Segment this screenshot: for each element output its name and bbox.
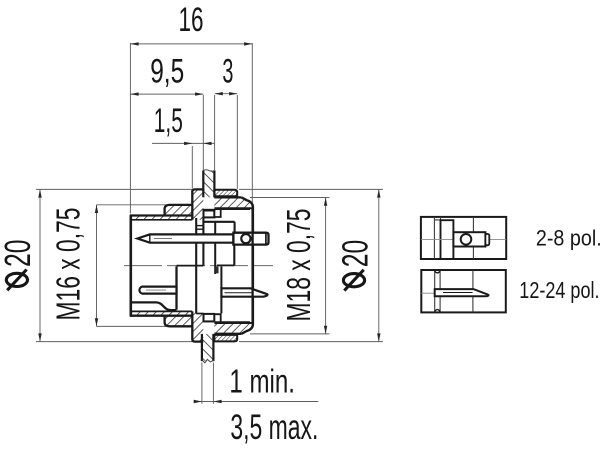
- tube wall outer top: [130, 214, 192, 216]
- break line vertical: [472, 270, 474, 289]
- svg-text:9,5: 9,5: [150, 52, 184, 90]
- solder cup box1: [485, 234, 489, 245]
- arrow M18 top: [324, 198, 327, 206]
- arrow M18 bottom: [324, 326, 327, 334]
- lower pin center dash: [146, 289, 166, 291]
- lug cup line: [265, 233, 267, 244]
- arrow dia20R top: [377, 189, 380, 197]
- dim line 1 min: [198, 401, 319, 403]
- flange outline bottom: [192, 311, 203, 341]
- tube wall inner bottom: [130, 310, 192, 312]
- M18 neck hatch bottom: [214, 323, 250, 334]
- extension line y=189.4 left: [36, 188, 192, 190]
- lower sleeve outline: [131, 302, 177, 310]
- lower pin: [139, 287, 176, 294]
- arrow 1,5 right: [203, 142, 211, 145]
- svg-text:3: 3: [222, 52, 233, 90]
- svg-text:20: 20: [0, 239, 38, 267]
- hatch field front shell lower: [131, 311, 204, 341]
- view box 2-8 pol: [421, 217, 506, 259]
- arrow 16 right: [244, 42, 252, 45]
- extension line x=237.3: [236, 95, 238, 189]
- upper pin: [137, 234, 233, 242]
- rear block right edge upper: [234, 222, 236, 233]
- contact bar box1: [453, 232, 485, 246]
- lower contact blade: [221, 288, 267, 296]
- hole box1: [461, 234, 472, 245]
- centerline box1: [421, 238, 457, 240]
- arrow dia20L bottom: [38, 333, 41, 341]
- arrow 9,5 left: [130, 92, 138, 95]
- arrow 1,5 left: [184, 142, 192, 145]
- thread undercut notch bottom: [214, 314, 220, 323]
- thread collar top: [165, 205, 193, 216]
- arrow M16 top: [95, 205, 98, 213]
- arrow M16 bottom: [95, 318, 98, 326]
- slot notch bottom: [435, 310, 440, 313]
- svg-text:M16 x 0,75: M16 x 0,75: [50, 208, 87, 321]
- clamp ring sliver bottom: [214, 335, 237, 342]
- key rib upper: [204, 210, 215, 218]
- extension line y=197.5 right: [250, 197, 330, 199]
- panel bar bottom: [202, 334, 214, 363]
- upper solder lug: [233, 233, 268, 245]
- centerline: [124, 265, 273, 267]
- step edge at centerline right: [217, 264, 234, 266]
- arrow dia20R bottom: [377, 333, 380, 341]
- dim line M16: [96, 205, 98, 327]
- blade box2: [435, 289, 489, 296]
- neck top edge: [214, 196, 241, 198]
- arrow 3 left: [215, 92, 223, 95]
- dim line 3: [215, 93, 238, 95]
- neck root top: [214, 207, 252, 209]
- extension line y=341.6 left: [36, 341, 192, 343]
- extension line y=204.8: [97, 204, 169, 206]
- thread collar bottom: [165, 316, 193, 327]
- svg-text:1,5: 1,5: [154, 102, 183, 140]
- insert front piece edge: [195, 218, 197, 314]
- key rib lower: [204, 314, 215, 322]
- neck bottom edge: [214, 333, 241, 335]
- dim line M18: [325, 198, 327, 334]
- insert mid vertical: [214, 222, 216, 274]
- extension line y=333.9 right: [250, 333, 330, 335]
- flange outline top: [192, 189, 203, 219]
- arrowheads: [38, 42, 380, 403]
- extension line right x=252.3: [251, 43, 253, 206]
- arrow 3 right: [229, 92, 237, 95]
- M18 neck hatch top: [214, 197, 250, 208]
- slot verticals: [434, 270, 436, 312]
- blade inner line box2: [443, 292, 473, 294]
- upper pin center dash: [154, 238, 172, 240]
- arrow 1min right: [213, 400, 221, 403]
- view box 12-24 pol: [421, 270, 506, 312]
- key block small dark: [215, 266, 218, 273]
- extension line y=341.6 right: [239, 341, 383, 343]
- label dia 20 left: [6, 270, 27, 291]
- extension line x=201.9 bottom: [201, 363, 203, 404]
- rear face with nubs: [242, 197, 253, 333]
- thread root thin top: [204, 209, 250, 211]
- rear block right edge lower: [233, 245, 235, 266]
- dim line dia20 right: [378, 189, 380, 341]
- svg-text:16: 16: [179, 1, 204, 39]
- neck root bottom: [214, 322, 252, 324]
- extension line y=189.4 right: [239, 188, 383, 190]
- blade inner line: [225, 292, 252, 294]
- block: [441, 220, 454, 259]
- blade support vertical: [220, 266, 222, 288]
- extension line x=213.4 bottom: [212, 363, 214, 404]
- svg-text:12-24 pol.: 12-24 pol.: [519, 277, 599, 303]
- thread root thin bottom: [204, 321, 250, 323]
- extension line left x=130.4: [129, 43, 131, 214]
- insert lower face: [175, 266, 177, 309]
- insert micro step bottom: [196, 228, 203, 230]
- break line vertical: [472, 217, 474, 232]
- insert bottom closure: [196, 313, 203, 315]
- slot notch top: [435, 270, 440, 273]
- inner vertical left: [433, 217, 435, 259]
- step edge at centerline left: [177, 265, 204, 267]
- extension line x=192.3: [191, 146, 193, 189]
- dim line dia20 left: [39, 189, 41, 341]
- label dia 20 right: [343, 270, 364, 291]
- arrow 9,5 right: [195, 92, 203, 95]
- dim line 1,5: [152, 142, 214, 144]
- extension line x=214.6: [214, 95, 216, 170]
- dim line 16: [130, 43, 252, 45]
- dim line 9,5: [130, 93, 203, 95]
- centerline box2: [421, 292, 434, 294]
- svg-text:M18 x 0,75: M18 x 0,75: [280, 209, 317, 322]
- svg-text:1 min.: 1 min.: [229, 363, 295, 400]
- thread undercut notch top: [214, 208, 220, 217]
- svg-text:2-8 pol.: 2-8 pol.: [536, 226, 602, 251]
- small step: [434, 217, 440, 220]
- lug solder hole: [241, 234, 250, 243]
- tube wall inner top: [130, 219, 192, 221]
- clamp ring sliver top: [214, 190, 237, 197]
- tube wall outer bottom: [130, 315, 192, 317]
- svg-text:3,5 max.: 3,5 max.: [230, 408, 318, 447]
- extension line x=203.3: [202, 95, 204, 170]
- pin cone base line: [149, 234, 151, 242]
- insert top edge: [204, 221, 235, 223]
- insert micro step top: [196, 225, 203, 227]
- svg-text:20: 20: [334, 240, 375, 268]
- insert upper face: [202, 217, 204, 265]
- hatch field front shell upper (flange + collar + tube wall): [131, 189, 204, 219]
- arrow 1min left: [194, 400, 202, 403]
- rear face overlay line: [251, 209, 253, 322]
- front face: [130, 215, 133, 317]
- blade support vertical lower: [220, 297, 222, 314]
- arrow 16 left: [130, 42, 138, 45]
- extension line y=326.4: [97, 325, 169, 327]
- arrow dia20L top: [38, 189, 41, 197]
- panel bar top: [203, 170, 214, 198]
